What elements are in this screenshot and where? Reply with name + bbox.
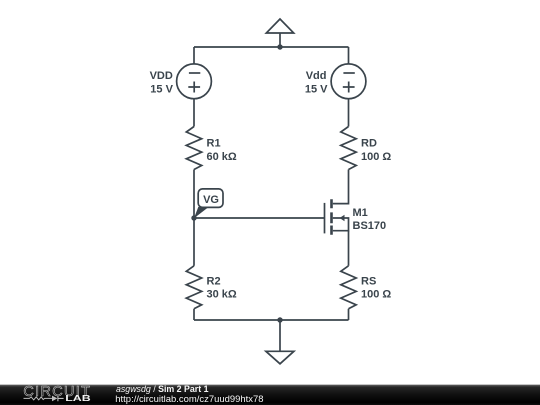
- svg-text:RD: RD: [361, 138, 377, 150]
- wire top bus: [194, 46, 349, 48]
- power rail symbol VDD (top triangle): [266, 19, 293, 47]
- wire M1 source to RS: [348, 231, 350, 266]
- svg-text:60 kΩ: 60 kΩ: [207, 151, 237, 163]
- svg-text:15 V: 15 V: [150, 84, 173, 96]
- wire RS to bottom bus: [348, 309, 350, 320]
- wire VG node to R2: [193, 218, 195, 266]
- label M1 BS170: [353, 207, 387, 232]
- svg-text:RS: RS: [361, 275, 376, 287]
- svg-text:LAB: LAB: [65, 395, 91, 403]
- label R1 60 kΩ: [207, 138, 237, 163]
- svg-text:100 Ω: 100 Ω: [361, 151, 391, 163]
- node VG flag: [194, 189, 223, 218]
- wire left top (bus to VDD source): [193, 47, 195, 64]
- wire Vdd source to RD: [348, 99, 350, 127]
- svg-text:Vdd: Vdd: [306, 70, 327, 82]
- wire bottom bus: [194, 319, 349, 321]
- label VDD 15 V: [150, 70, 174, 95]
- wire R1 to node VG: [193, 170, 195, 219]
- svg-text:M1: M1: [353, 207, 368, 219]
- svg-text:asgwsdg / Sim 2 Part 1: asgwsdg / Sim 2 Part 1: [116, 384, 209, 394]
- svg-text:VDD: VDD: [150, 70, 173, 82]
- svg-text:VG: VG: [203, 194, 219, 206]
- wire right top (bus to Vdd source): [348, 47, 350, 64]
- resistor RD: [341, 127, 356, 170]
- node junction VG: [191, 215, 196, 220]
- node junction at bottom bus: [277, 317, 282, 322]
- label RS 100 Ω: [361, 275, 391, 300]
- footer bar: [0, 385, 540, 405]
- wire RD to M1 drain: [333, 170, 349, 204]
- svg-text:15 V: 15 V: [305, 84, 328, 96]
- svg-text:BS170: BS170: [353, 220, 387, 232]
- svg-text:R1: R1: [207, 138, 221, 150]
- label Vdd 15 V: [305, 70, 328, 95]
- svg-text:http://circuitlab.com/cz7uud99: http://circuitlab.com/cz7uud99htx78: [115, 394, 263, 405]
- resistor R1: [186, 127, 201, 170]
- svg-text:R2: R2: [207, 275, 221, 287]
- resistor RS: [341, 266, 356, 309]
- wire gate (VG node to M1 gate): [194, 217, 325, 219]
- label RD 100 Ω: [361, 138, 391, 163]
- svg-text:100 Ω: 100 Ω: [361, 289, 391, 301]
- voltage source VDD: [177, 64, 212, 99]
- wire R2 to bottom bus: [193, 309, 195, 320]
- node junction at top rail: [277, 44, 282, 49]
- svg-text:30 kΩ: 30 kΩ: [207, 289, 237, 301]
- resistor R2: [186, 266, 201, 309]
- CircuitLab logo: [23, 384, 91, 404]
- ground: [266, 320, 294, 364]
- voltage source Vdd: [331, 64, 366, 99]
- transistor M1: [325, 199, 349, 235]
- label R2 30 kΩ: [207, 275, 237, 300]
- wire VDD source to R1: [193, 99, 195, 127]
